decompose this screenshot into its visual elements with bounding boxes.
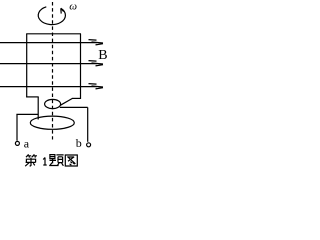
coil frame top edge	[26, 33, 81, 35]
caption character tu (figure)	[65, 155, 77, 166]
coil frame bottom-left edge	[26, 96, 39, 98]
rotation axis (dashed)	[52, 2, 54, 140]
caption character di (first)	[25, 154, 37, 166]
rotation arrow omega	[38, 7, 65, 25]
terminal a circle	[15, 141, 19, 145]
field line 1	[0, 42, 97, 44]
slip ring small	[45, 99, 61, 108]
coil frame bottom-right edge	[72, 97, 81, 99]
svg-text:a: a	[24, 136, 30, 150]
terminal b circle	[87, 143, 91, 147]
brush wire to b (horizontal)	[60, 106, 88, 108]
brush wire to a (horizontal)	[16, 113, 38, 115]
field line 1 arrow	[89, 40, 104, 45]
caption character ti (problem)	[49, 155, 63, 166]
svg-text:b: b	[76, 136, 82, 150]
field line 3 arrow	[89, 84, 104, 89]
field line 3	[0, 86, 97, 88]
coil frame left edge	[26, 34, 28, 98]
wire to b (vertical)	[87, 107, 89, 141]
coil frame right edge	[80, 34, 82, 99]
shaft left lead	[37, 97, 39, 120]
slip ring large	[30, 116, 74, 129]
caption digit 1	[43, 158, 47, 166]
svg-text:B: B	[98, 48, 107, 63]
svg-text:ω: ω	[69, 1, 77, 13]
field line 2	[0, 63, 97, 65]
field line 2 arrow	[89, 61, 104, 66]
right lead diagonal to slip ring	[60, 99, 72, 106]
wire to a (vertical)	[16, 114, 18, 140]
